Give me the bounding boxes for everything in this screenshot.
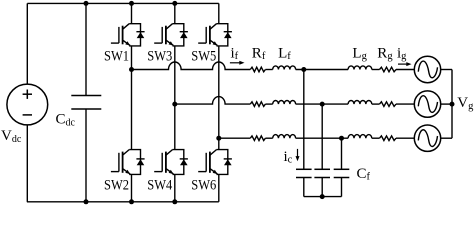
resistor Rf phase A xyxy=(250,67,265,72)
transistor SW1 (IGBT with antiparallel diode) xyxy=(111,24,145,46)
wire: source C to grid bus xyxy=(441,137,452,139)
voltage source Vdc xyxy=(7,84,48,125)
wire: positive DC rail (top) xyxy=(27,2,219,4)
node: Cf tap phase C xyxy=(339,136,344,141)
resistor Rg phase A xyxy=(380,67,397,72)
wire: leg midpoint xyxy=(174,46,176,150)
node: Cf tap phase A xyxy=(301,67,306,72)
AC source grid phase B xyxy=(414,91,440,117)
transistor SW3 (IGBT with antiparallel diode) xyxy=(154,24,188,46)
capacitor Cdc xyxy=(71,96,101,110)
wire: Cdc top lead xyxy=(85,3,87,95)
wire xyxy=(265,137,272,139)
svg-text:Lf: Lf xyxy=(278,45,291,62)
wire: grid neutral bus xyxy=(451,70,453,139)
transistor SW4 (IGBT with antiparallel diode) xyxy=(154,150,188,175)
svg-text:SW2: SW2 xyxy=(104,177,129,193)
svg-text:ig: ig xyxy=(397,45,407,62)
wire: Cf star point bus xyxy=(304,196,342,198)
node: leg A top junction xyxy=(129,1,134,6)
inductor Lf phase A xyxy=(273,66,296,70)
node: Cdc bottom junction xyxy=(84,199,89,204)
wire xyxy=(372,69,380,71)
capacitor Cf phase A xyxy=(296,169,312,177)
resistor Rf phase B xyxy=(250,102,265,107)
wire: leg SW4 bottom lead xyxy=(174,174,176,201)
node: leg B bottom junction xyxy=(172,199,177,204)
svg-text:SW4: SW4 xyxy=(147,177,172,193)
wire: leg midpoint xyxy=(218,46,220,150)
node: Cf star point xyxy=(320,194,325,199)
svg-text:Cf: Cf xyxy=(357,166,371,183)
wire: Cf branch phase C xyxy=(341,138,343,169)
wire: to AC source xyxy=(396,103,414,105)
capacitor Cf phase C xyxy=(334,169,350,177)
wire: leg SW3 top lead xyxy=(174,3,176,23)
resistor Rg phase B xyxy=(380,102,397,107)
svg-text:Rg: Rg xyxy=(377,45,393,62)
wire: negative DC rail (bottom) xyxy=(27,201,219,203)
wire: DC source top lead xyxy=(26,3,28,84)
wire: leg SW5 top lead xyxy=(218,3,220,23)
transistor SW6 (IGBT with antiparallel diode) xyxy=(198,150,232,175)
current arrow if xyxy=(230,62,241,64)
node: phase A leg junction xyxy=(129,67,134,72)
node: Cdc top junction xyxy=(84,1,89,6)
wire: DC source bottom lead xyxy=(26,125,28,202)
node: grid bus junction xyxy=(450,102,455,107)
wire xyxy=(372,137,380,139)
wire: Cf branch phase B xyxy=(321,104,323,169)
wire: source A to grid bus xyxy=(441,69,452,71)
wire xyxy=(265,103,272,105)
resistor Rf phase C xyxy=(250,136,265,141)
svg-text:Vg: Vg xyxy=(457,95,474,112)
resistor Rg phase C xyxy=(380,136,397,141)
wire: leg midpoint xyxy=(131,46,133,150)
wire: Cdc bottom lead xyxy=(85,109,87,202)
wire: Cf bottom lead phase B xyxy=(321,178,323,197)
svg-text:if: if xyxy=(231,45,239,62)
transistor SW5 (IGBT with antiparallel diode) xyxy=(198,24,232,46)
node: phase B leg junction xyxy=(172,102,177,107)
svg-text:SW5: SW5 xyxy=(191,48,216,64)
svg-text:SW3: SW3 xyxy=(147,48,172,64)
wire: Cf bottom lead phase C xyxy=(341,178,343,197)
svg-text:SW6: SW6 xyxy=(191,177,216,193)
inductor Lg phase A xyxy=(348,66,372,70)
wire: phase B output with crossover hop xyxy=(175,97,251,105)
capacitor Cf phase B xyxy=(314,169,330,177)
inductor Lg phase B xyxy=(348,100,372,104)
wire xyxy=(265,69,272,71)
wire: to grid inductor xyxy=(296,137,349,139)
wire: source B to grid bus xyxy=(441,103,452,105)
inductor Lf phase B xyxy=(273,100,296,104)
svg-text:Rf: Rf xyxy=(252,45,266,62)
wire: to grid inductor xyxy=(296,69,349,71)
current arrow ic xyxy=(297,149,299,157)
wire xyxy=(372,103,380,105)
wire: to AC source xyxy=(396,137,414,139)
wire: leg SW2 bottom lead xyxy=(131,174,133,201)
node: leg A bottom junction xyxy=(129,199,134,204)
node: phase C leg junction xyxy=(216,136,221,141)
inductor Lf phase C xyxy=(273,135,296,139)
svg-text:Lg: Lg xyxy=(352,45,367,62)
wire: Cf branch phase A xyxy=(303,70,305,170)
current arrow ig xyxy=(398,63,408,65)
AC source grid phase C xyxy=(414,125,440,151)
wire: phase A output with crossover hops xyxy=(132,62,251,70)
wire: to AC source xyxy=(396,69,414,71)
wire: leg SW6 bottom lead xyxy=(218,174,220,201)
node: Cf tap phase B xyxy=(320,102,325,107)
wire: phase C output xyxy=(219,137,251,139)
svg-text:SW1: SW1 xyxy=(104,48,129,64)
wire: Cf bottom lead phase A xyxy=(303,178,305,197)
node: leg B top junction xyxy=(172,1,177,6)
svg-text:Cdc: Cdc xyxy=(56,112,76,129)
transistor SW2 (IGBT with antiparallel diode) xyxy=(111,150,145,175)
AC source grid phase A xyxy=(414,56,440,82)
svg-text:Vdc: Vdc xyxy=(1,128,22,145)
wire: to grid inductor xyxy=(296,103,349,105)
wire: leg SW1 top lead xyxy=(131,3,133,23)
svg-text:ic: ic xyxy=(284,149,293,166)
inductor Lg phase C xyxy=(348,135,372,139)
